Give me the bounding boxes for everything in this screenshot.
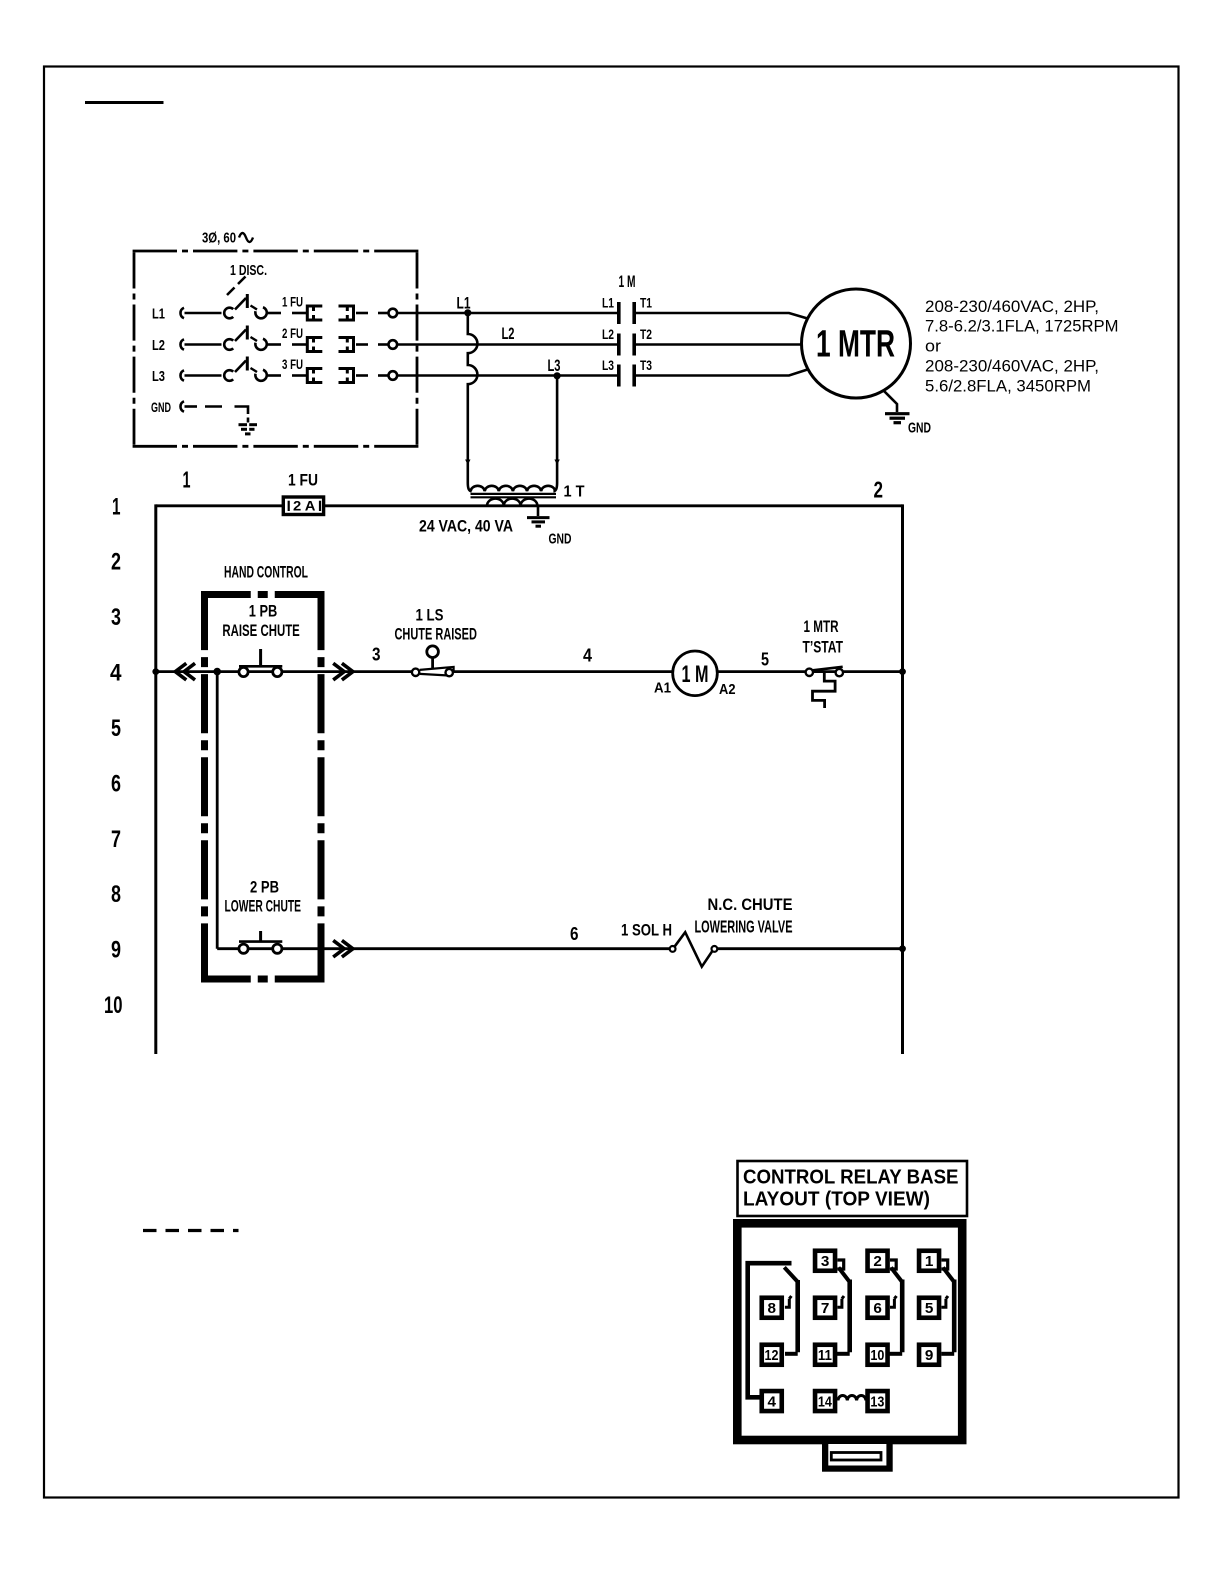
rung 4 wire bbox=[156, 670, 903, 673]
svg-text:HAND CONTROL: HAND CONTROL bbox=[224, 564, 308, 582]
power enclosure dashed box bbox=[133, 251, 419, 446]
svg-text:1 M: 1 M bbox=[619, 272, 636, 291]
fuse 1FU label bbox=[282, 294, 303, 310]
svg-text:8: 8 bbox=[768, 1301, 777, 1317]
L2 line connector bbox=[180, 339, 221, 349]
svg-text:10: 10 bbox=[870, 1348, 884, 1364]
motor ground bbox=[884, 391, 932, 437]
svg-text:CONTROL RELAY BASE: CONTROL RELAY BASE bbox=[743, 1166, 959, 1189]
coil 1M bbox=[673, 651, 718, 696]
svg-text:L2: L2 bbox=[152, 337, 165, 354]
svg-text:L3: L3 bbox=[152, 368, 165, 385]
GND dashed wire bbox=[205, 407, 248, 415]
node L3 label bbox=[548, 356, 561, 375]
svg-text:7.8-6.2/3.1FLA, 1725RPM: 7.8-6.2/3.1FLA, 1725RPM bbox=[925, 317, 1119, 336]
svg-text:8: 8 bbox=[111, 881, 121, 908]
motor spec text bbox=[925, 297, 1119, 396]
transformer primary lead left (with wire hops) bbox=[465, 313, 477, 491]
label N.C. CHUTE / LOWERING VALVE bbox=[695, 895, 793, 937]
svg-text:3 FU: 3 FU bbox=[282, 356, 303, 372]
svg-text:1 T: 1 T bbox=[564, 484, 585, 501]
pin 5 bbox=[919, 1298, 939, 1318]
terminal label A1 bbox=[654, 680, 671, 697]
svg-text:6: 6 bbox=[873, 1301, 882, 1317]
limit switch 1LS bbox=[412, 646, 454, 676]
ladder line numbers 1-10 bbox=[104, 494, 123, 1020]
wire number 2 bbox=[874, 477, 884, 503]
contactor 1M contact L3-T3 bbox=[602, 357, 652, 387]
svg-text:4: 4 bbox=[583, 645, 593, 666]
branch wire down to rung 9 bbox=[216, 672, 219, 949]
pin 6 bbox=[868, 1298, 888, 1318]
svg-text:RAISE CHUTE: RAISE CHUTE bbox=[222, 621, 299, 640]
svg-text:5: 5 bbox=[925, 1301, 934, 1317]
svg-text:1 DISC.: 1 DISC. bbox=[230, 262, 267, 279]
pin 7 bbox=[815, 1298, 835, 1318]
svg-text:2: 2 bbox=[874, 477, 884, 503]
wire L2 to contactor bbox=[397, 343, 617, 346]
svg-text:14: 14 bbox=[818, 1394, 832, 1410]
pushbutton 1PB bbox=[239, 649, 282, 677]
label 2 PB / LOWER CHUTE bbox=[225, 878, 302, 916]
svg-text:3Ø, 60: 3Ø, 60 bbox=[202, 230, 236, 247]
svg-text:2 FU: 2 FU bbox=[282, 325, 303, 341]
relay coil between pins 14-13 bbox=[838, 1396, 866, 1401]
terminal circle L3 bbox=[389, 371, 398, 380]
svg-text:1 MTR: 1 MTR bbox=[804, 617, 839, 636]
disconnect pole L1 bbox=[224, 294, 306, 320]
pin 1 bbox=[919, 1251, 939, 1271]
chassis ground (dashed) bbox=[239, 418, 258, 434]
wire L1 to contactor bbox=[397, 312, 617, 315]
pin 7 hook bbox=[838, 1296, 845, 1307]
wire T1 to motor bbox=[636, 313, 808, 319]
svg-text:A1: A1 bbox=[654, 680, 671, 697]
svg-text:L1: L1 bbox=[152, 306, 165, 323]
transformer primary lead right bbox=[553, 376, 559, 491]
connector chevrons left (rung 4) bbox=[175, 663, 195, 680]
node L2 label bbox=[502, 324, 515, 343]
column 3-7-11 arm bbox=[837, 1268, 850, 1354]
svg-text:12: 12 bbox=[765, 1348, 779, 1364]
svg-text:5.6/2.8FLA, 3450RPM: 5.6/2.8FLA, 3450RPM bbox=[925, 376, 1091, 395]
node GND (enclosure row) bbox=[151, 399, 171, 415]
terminal label A2 bbox=[719, 681, 736, 698]
pin 10 bbox=[868, 1345, 888, 1365]
svg-text:A2: A2 bbox=[719, 681, 736, 698]
svg-text:L2: L2 bbox=[602, 326, 614, 342]
svg-text:L1: L1 bbox=[602, 295, 614, 311]
connector chevrons right (rung 9) bbox=[333, 940, 353, 957]
svg-text:GND: GND bbox=[908, 420, 931, 437]
svg-text:4: 4 bbox=[768, 1394, 777, 1410]
svg-text:or: or bbox=[925, 337, 941, 356]
wire T2 to motor bbox=[636, 343, 802, 346]
label 3-phase 60Hz bbox=[202, 230, 253, 247]
node L3 (enclosure row) bbox=[152, 368, 165, 385]
svg-text:5: 5 bbox=[111, 715, 121, 742]
svg-text:L2: L2 bbox=[502, 324, 515, 343]
fuse 1FU clips bbox=[307, 306, 388, 320]
dashed note line bbox=[143, 1229, 239, 1232]
svg-text:13: 13 bbox=[870, 1394, 884, 1410]
svg-text:6: 6 bbox=[570, 923, 579, 944]
label 24VAC 40VA bbox=[419, 518, 513, 536]
pin 13 bbox=[868, 1391, 888, 1411]
svg-text:5: 5 bbox=[761, 649, 769, 670]
svg-text:208-230/460VAC, 2HP,: 208-230/460VAC, 2HP, bbox=[925, 297, 1099, 316]
wire T3 to motor bbox=[636, 370, 808, 376]
svg-text:11: 11 bbox=[818, 1348, 832, 1364]
motor 1 MTR bbox=[802, 289, 911, 398]
svg-text:10: 10 bbox=[104, 992, 123, 1019]
svg-text:GND: GND bbox=[151, 399, 171, 415]
left column contact bracket (pins 8-12-4) bbox=[748, 1263, 792, 1397]
label HAND CONTROL bbox=[224, 564, 308, 582]
svg-text:LOWERING VALVE: LOWERING VALVE bbox=[695, 917, 793, 937]
contactor 1M contact L2-T2 bbox=[602, 326, 652, 356]
disconnect 1 DISC. label bbox=[230, 262, 267, 279]
svg-text:9: 9 bbox=[925, 1348, 934, 1364]
svg-text:T’STAT: T’STAT bbox=[803, 638, 844, 657]
L1 line connector bbox=[180, 308, 221, 318]
svg-text:CHUTE RAISED: CHUTE RAISED bbox=[395, 625, 477, 644]
svg-text:1: 1 bbox=[925, 1254, 934, 1270]
svg-text:GND: GND bbox=[549, 531, 572, 548]
rung 9 wire bbox=[217, 947, 902, 950]
pushbutton 2PB bbox=[239, 931, 282, 953]
column 2-6-10 arm bbox=[889, 1268, 902, 1354]
disconnect linkage (dash-dot) bbox=[227, 277, 246, 296]
pin 4 bbox=[762, 1391, 782, 1411]
node L1 (enclosure row) bbox=[152, 306, 165, 323]
svg-text:7: 7 bbox=[821, 1301, 830, 1317]
pin 5 hook bbox=[942, 1296, 949, 1307]
pin 3 tab bbox=[838, 1260, 844, 1269]
control fuse 1FU (2A) bbox=[283, 497, 323, 515]
svg-text:L3: L3 bbox=[548, 356, 561, 375]
svg-text:1 SOL H: 1 SOL H bbox=[621, 922, 672, 940]
svg-text:7: 7 bbox=[111, 826, 121, 853]
svg-text:3: 3 bbox=[821, 1254, 830, 1270]
L3 line connector bbox=[180, 370, 221, 380]
relay base outer box bbox=[737, 1223, 962, 1440]
svg-text:1 FU: 1 FU bbox=[288, 472, 318, 490]
svg-text:LOWER CHUTE: LOWER CHUTE bbox=[225, 897, 302, 916]
svg-text:1: 1 bbox=[183, 467, 191, 493]
svg-text:2 PB: 2 PB bbox=[250, 878, 279, 897]
svg-text:1 PB: 1 PB bbox=[249, 602, 277, 621]
pin 2 bbox=[868, 1251, 888, 1271]
pin 6 hook bbox=[890, 1296, 897, 1307]
wire number 5 bbox=[761, 649, 769, 670]
transformer 1T bbox=[471, 484, 585, 506]
pin 11 bbox=[815, 1345, 835, 1365]
solenoid 1SOL bbox=[670, 932, 718, 967]
terminal circle L2 bbox=[389, 340, 398, 349]
rung 1 rail wire bbox=[156, 504, 903, 507]
svg-text:24 VAC, 40 VA: 24 VAC, 40 VA bbox=[419, 518, 513, 536]
wire number 6 bbox=[570, 923, 579, 944]
svg-text:T1: T1 bbox=[640, 295, 652, 311]
svg-text:2: 2 bbox=[873, 1254, 882, 1270]
svg-text:2: 2 bbox=[111, 549, 121, 576]
left column movable arm bbox=[784, 1267, 797, 1354]
svg-text:1 FU: 1 FU bbox=[282, 294, 303, 310]
pin 8 hook bbox=[785, 1296, 792, 1307]
svg-text:3: 3 bbox=[111, 604, 121, 631]
svg-text:4: 4 bbox=[110, 660, 122, 687]
svg-text:1 LS: 1 LS bbox=[416, 606, 444, 625]
svg-text:1: 1 bbox=[112, 494, 121, 521]
contactor 1M label bbox=[619, 272, 636, 291]
disconnect pole L3 bbox=[224, 357, 306, 383]
fuse 3FU label bbox=[282, 356, 303, 372]
svg-text:LAYOUT (TOP VIEW): LAYOUT (TOP VIEW) bbox=[743, 1188, 930, 1211]
terminal circle L1 bbox=[389, 309, 398, 318]
svg-text:6: 6 bbox=[111, 771, 121, 798]
hand control enclosure bbox=[201, 591, 325, 983]
fuse 2FU clips bbox=[307, 338, 388, 352]
svg-text:3: 3 bbox=[372, 644, 381, 665]
label 1 PB / RAISE CHUTE bbox=[222, 602, 299, 641]
svg-text:9: 9 bbox=[111, 937, 121, 964]
wire L3 to contactor bbox=[397, 374, 617, 377]
label 1 MTR / T'STAT bbox=[803, 617, 844, 657]
wire number 1 bbox=[183, 467, 191, 493]
junction L3 bbox=[554, 372, 561, 379]
junction rung4 branch bbox=[213, 668, 221, 676]
svg-text:T3: T3 bbox=[640, 357, 652, 373]
wire number 3 bbox=[372, 644, 381, 665]
pin 8 bbox=[762, 1298, 782, 1318]
junction L1 bbox=[464, 309, 471, 316]
thermostat 1MTR T'STAT bbox=[806, 667, 843, 708]
contactor 1M contact L1-T1 bbox=[602, 295, 652, 325]
relay base title box bbox=[738, 1161, 968, 1216]
pin 12 bbox=[762, 1345, 782, 1365]
node L1 label bbox=[457, 294, 471, 313]
wire number 4 bbox=[583, 645, 593, 666]
fuse 3FU clips bbox=[307, 369, 388, 383]
pin 14 bbox=[815, 1391, 835, 1411]
pin 3 bbox=[815, 1251, 835, 1271]
control fuse 1FU label bbox=[288, 472, 318, 490]
right rail bbox=[901, 504, 904, 1054]
svg-text:2 A: 2 A bbox=[293, 499, 316, 514]
column 1-5-9 arm bbox=[941, 1268, 954, 1354]
disconnect pole L2 bbox=[224, 326, 306, 352]
label 1 LS / CHUTE RAISED bbox=[395, 606, 477, 644]
junction right rail rung4 bbox=[899, 668, 906, 675]
pin 2 tab bbox=[890, 1260, 896, 1269]
left rail bbox=[154, 504, 157, 1054]
junction left rail rung4 bbox=[152, 668, 159, 675]
junction right rail rung9 bbox=[899, 945, 906, 952]
node L2 (enclosure row) bbox=[152, 337, 165, 354]
connector chevrons right (rung 4) bbox=[333, 663, 353, 680]
svg-text:L3: L3 bbox=[602, 357, 614, 373]
fuse 2FU label bbox=[282, 325, 303, 341]
pin 9 bbox=[919, 1345, 939, 1365]
pin 1 tab bbox=[942, 1260, 948, 1269]
relay base bottom tab bbox=[822, 1444, 893, 1472]
svg-text:N.C. CHUTE: N.C. CHUTE bbox=[708, 895, 793, 914]
svg-text:1 M: 1 M bbox=[682, 661, 709, 688]
svg-text:208-230/460VAC, 2HP,: 208-230/460VAC, 2HP, bbox=[925, 357, 1099, 376]
transformer secondary ground bbox=[527, 506, 572, 548]
svg-text:T2: T2 bbox=[640, 326, 652, 342]
svg-text:1 MTR: 1 MTR bbox=[816, 324, 895, 366]
GND line connector bbox=[180, 401, 197, 411]
solenoid 1 SOL H label bbox=[621, 922, 672, 940]
title underline bbox=[85, 101, 164, 104]
